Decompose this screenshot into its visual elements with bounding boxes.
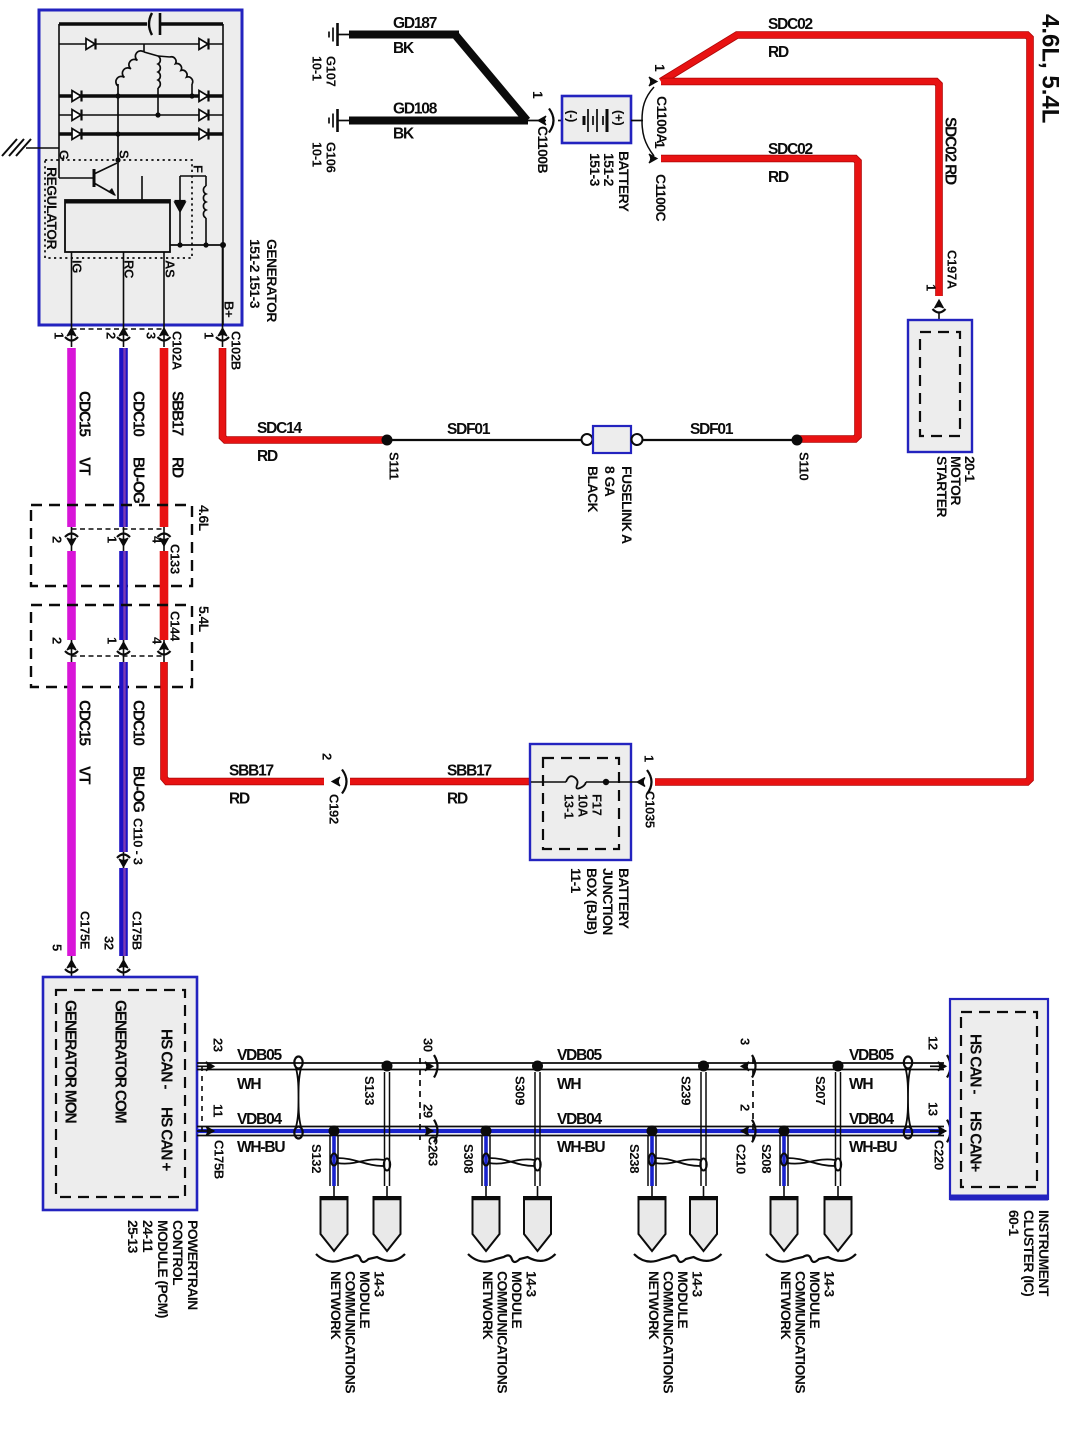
C144 pin 1 bbox=[104, 637, 130, 662]
IC caption bbox=[1006, 1210, 1052, 1297]
wire SBB17 RD upper bbox=[164, 348, 186, 527]
svg-text:11: 11 bbox=[210, 1104, 225, 1117]
svg-text:12: 12 bbox=[925, 1036, 940, 1050]
svg-text:C1035: C1035 bbox=[642, 791, 657, 828]
svg-text:FUSELINK A: FUSELINK A bbox=[619, 466, 635, 544]
svg-text:C133: C133 bbox=[167, 544, 182, 574]
twisted pair symbol near PCM bbox=[294, 1057, 302, 1139]
fuselink A 8 GA BLACK bbox=[582, 426, 643, 544]
svg-text:STARTER: STARTER bbox=[934, 456, 950, 517]
svg-text:VDB05: VDB05 bbox=[849, 1047, 895, 1064]
svg-text:REGULATOR: REGULATOR bbox=[44, 167, 60, 249]
network connector arrow (left) bbox=[771, 1197, 798, 1251]
svg-text:COMMUNICATIONS: COMMUNICATIONS bbox=[495, 1271, 511, 1393]
svg-text:GD187: GD187 bbox=[393, 15, 437, 32]
wire CDC10 below C110-3 bbox=[124, 868, 125, 956]
svg-text:2: 2 bbox=[737, 1104, 752, 1111]
instrument cluster (IC) box bbox=[950, 999, 1048, 1199]
svg-text:MODULE: MODULE bbox=[357, 1271, 373, 1328]
svg-text:C1100A: C1100A bbox=[654, 96, 670, 143]
svg-text:10-1: 10-1 bbox=[309, 56, 324, 81]
inline connector C263 bbox=[420, 1038, 440, 1166]
wire CDC10 BU-OG upper bbox=[124, 348, 147, 527]
pin 5 C175E bbox=[49, 911, 92, 977]
wire CDC10 lower (to C110-3) bbox=[124, 662, 147, 852]
svg-text:29: 29 bbox=[420, 1104, 435, 1118]
svg-text:HS CAN+: HS CAN+ bbox=[967, 1111, 984, 1172]
connector C220 pin 13 bbox=[925, 1102, 950, 1170]
svg-text:CDC10: CDC10 bbox=[130, 700, 147, 745]
svg-text:BATTERY: BATTERY bbox=[616, 868, 632, 930]
generator internal: rectifier diode row 3 bbox=[59, 110, 223, 121]
svg-text:C144: C144 bbox=[167, 611, 182, 642]
svg-text:INSTRUMENT: INSTRUMENT bbox=[1036, 1210, 1052, 1297]
fuse F17 10A inside BJB bbox=[531, 776, 637, 819]
wire SBB17 RD: C144 to C192 bbox=[164, 662, 324, 808]
svg-text:S: S bbox=[116, 150, 131, 159]
svg-text:G107: G107 bbox=[323, 56, 338, 87]
svg-text:1: 1 bbox=[641, 755, 656, 762]
flyback diode (regulator) bbox=[175, 176, 186, 245]
field winding F coil bbox=[180, 176, 206, 245]
svg-text:151-2 151-3: 151-2 151-3 bbox=[247, 239, 263, 309]
svg-text:(-): (-) bbox=[564, 110, 579, 122]
generator internal: left bus bbox=[58, 24, 60, 160]
svg-text:C175E: C175E bbox=[77, 911, 92, 950]
regulator dotted box bbox=[45, 160, 192, 258]
splice S132 bbox=[309, 1126, 340, 1174]
svg-text:VDB04: VDB04 bbox=[237, 1111, 283, 1128]
svg-text:SBB17: SBB17 bbox=[447, 763, 492, 780]
network connector arrow (left) bbox=[473, 1197, 500, 1251]
svg-text:8 GA: 8 GA bbox=[602, 466, 618, 497]
svg-text:C1100B: C1100B bbox=[535, 126, 551, 173]
svg-text:S111: S111 bbox=[386, 452, 401, 480]
battery junction box (BJB) bbox=[530, 744, 632, 935]
svg-text:4.6L, 5.4L: 4.6L, 5.4L bbox=[1036, 14, 1063, 123]
label MODULE COMMUNICATIONS NETWORK 14-3 bbox=[328, 1271, 388, 1393]
svg-text:3: 3 bbox=[143, 332, 158, 339]
IG lead bbox=[69, 252, 84, 347]
svg-text:CDC15: CDC15 bbox=[76, 391, 93, 437]
svg-text:C102A: C102A bbox=[169, 331, 184, 371]
svg-text:SDF01: SDF01 bbox=[447, 421, 491, 438]
svg-text:24-11: 24-11 bbox=[140, 1220, 156, 1253]
battery BATTERY 151-2 151-3 bbox=[562, 96, 632, 213]
svg-text:1: 1 bbox=[652, 64, 668, 72]
pin 1 C197A bbox=[923, 250, 959, 332]
svg-text:B+: B+ bbox=[221, 301, 236, 318]
twisted pair symbol between branches bbox=[483, 1154, 541, 1171]
svg-text:C1100C: C1100C bbox=[653, 174, 669, 221]
REGULATOR label bbox=[44, 167, 60, 249]
wire CDC15 VT lower bbox=[72, 662, 93, 956]
svg-text:MODULE: MODULE bbox=[509, 1271, 525, 1328]
svg-text:1: 1 bbox=[201, 332, 216, 339]
svg-text:VDB05: VDB05 bbox=[557, 1047, 603, 1064]
svg-text:VT: VT bbox=[76, 457, 93, 476]
C133 pin 4 bbox=[149, 527, 170, 551]
svg-text:20-1: 20-1 bbox=[962, 456, 978, 482]
svg-text:CLUSTER (IC): CLUSTER (IC) bbox=[1021, 1210, 1037, 1296]
svg-text:F17: F17 bbox=[589, 794, 604, 816]
C144 label bbox=[167, 611, 182, 642]
splice S207 bbox=[813, 1061, 844, 1106]
svg-text:1: 1 bbox=[104, 536, 119, 543]
branch wire WH-BU from S208 bbox=[780, 1136, 788, 1197]
svg-text:SBB17: SBB17 bbox=[229, 763, 274, 780]
wire CDC15 VT (violet) upper bbox=[72, 348, 93, 527]
svg-text:2: 2 bbox=[49, 637, 64, 644]
svg-text:SBB17: SBB17 bbox=[169, 391, 186, 436]
branch wire WH-BU from S238 bbox=[648, 1136, 656, 1197]
svg-text:CDC10: CDC10 bbox=[130, 391, 147, 436]
C144 pin 4 bbox=[149, 637, 170, 662]
svg-text:BATTERY: BATTERY bbox=[616, 151, 632, 213]
svg-text:RD: RD bbox=[169, 457, 186, 478]
generator internal: B+ top rail with capacitor bbox=[59, 13, 223, 35]
branch wire WH-BU from S132 bbox=[330, 1136, 338, 1197]
svg-text:WH: WH bbox=[557, 1076, 581, 1093]
connector C1035 pin 1 bbox=[637, 755, 657, 828]
svg-text:C192: C192 bbox=[326, 794, 341, 824]
wire SBB17 between C133 and C144 bbox=[160, 551, 169, 640]
PCM caption bbox=[125, 1220, 201, 1318]
svg-text:SDC14: SDC14 bbox=[257, 420, 303, 437]
network connector arrow (left) bbox=[639, 1197, 666, 1251]
svg-text:SDC02: SDC02 bbox=[768, 141, 813, 158]
splice S239 bbox=[678, 1061, 709, 1106]
svg-text:32: 32 bbox=[101, 936, 116, 950]
svg-text:MODULE (PCM): MODULE (PCM) bbox=[155, 1220, 171, 1318]
network connector arrow (left) bbox=[321, 1197, 348, 1251]
pin 2 C102A bbox=[103, 328, 130, 341]
generator box GENERATOR 151-2 151-3 bbox=[39, 10, 242, 325]
transistor (regulator) bbox=[59, 160, 117, 196]
PCM pin 11 HS CAN + bbox=[197, 1104, 226, 1179]
svg-text:BU-OG: BU-OG bbox=[130, 766, 147, 813]
brace squiggle bbox=[468, 1254, 556, 1262]
pin 32 C175B bbox=[101, 911, 144, 977]
svg-text:BU-OG: BU-OG bbox=[130, 457, 147, 504]
starter motor box bbox=[908, 320, 978, 517]
svg-text:RD: RD bbox=[447, 791, 468, 808]
wire SDC14 RD: C102B to S111 bbox=[223, 348, 388, 465]
branch wire WH from S309 bbox=[535, 1072, 540, 1197]
connector C102A label bbox=[169, 331, 184, 371]
connector C102A link line bbox=[72, 328, 165, 330]
generator internal: rectifier diode row 4 bbox=[59, 129, 223, 140]
svg-text:GENERATOR COM: GENERATOR COM bbox=[112, 1000, 129, 1123]
ground G106 bbox=[309, 109, 350, 173]
twisted pair symbol between branches bbox=[331, 1154, 390, 1171]
svg-text:BOX (BJB): BOX (BJB) bbox=[584, 868, 600, 934]
splice S133 bbox=[362, 1061, 393, 1106]
wire SDF01 (S111 to fuselink) bbox=[387, 421, 581, 440]
connector C133 box (4.6L) bbox=[31, 505, 212, 586]
svg-text:S110: S110 bbox=[796, 452, 811, 481]
svg-text:POWERTRAIN: POWERTRAIN bbox=[185, 1220, 201, 1310]
svg-text:WH-BU: WH-BU bbox=[849, 1139, 897, 1156]
svg-text:COMMUNICATIONS: COMMUNICATIONS bbox=[343, 1271, 359, 1393]
svg-text:F: F bbox=[190, 165, 205, 173]
svg-text:10A: 10A bbox=[575, 794, 590, 818]
svg-text:(+): (+) bbox=[611, 110, 626, 125]
wire GD187 BK (thick black) bbox=[349, 15, 527, 121]
ground G107 bbox=[309, 23, 350, 87]
label MODULE COMMUNICATIONS NETWORK 14-3 bbox=[778, 1271, 838, 1393]
connector C192 pin 2 bbox=[319, 753, 346, 824]
svg-text:2: 2 bbox=[103, 332, 118, 339]
svg-text:S207: S207 bbox=[813, 1076, 828, 1105]
pin 1 C1100A bbox=[649, 64, 670, 143]
regulator block bbox=[65, 176, 170, 252]
wire VDB05 WH (top CAN line) bbox=[197, 1047, 944, 1093]
svg-text:14-3: 14-3 bbox=[524, 1271, 540, 1297]
4.6L, 5.4L tag bbox=[1036, 14, 1063, 123]
svg-text:C220: C220 bbox=[931, 1140, 946, 1170]
C144 pin 2 bbox=[49, 637, 78, 662]
wire SDC02 RD: C1100A to right edge, down to BJB C1035 bbox=[655, 16, 1030, 782]
svg-text:1: 1 bbox=[923, 284, 938, 291]
connector C1100B bbox=[528, 91, 562, 173]
svg-text:NETWORK: NETWORK bbox=[646, 1271, 662, 1340]
twisted pair symbol between branches bbox=[781, 1154, 841, 1171]
svg-text:S308: S308 bbox=[461, 1144, 476, 1173]
svg-text:JUNCTION: JUNCTION bbox=[600, 868, 616, 935]
svg-text:S208: S208 bbox=[759, 1144, 774, 1173]
chassis ground (generator case) bbox=[2, 139, 59, 156]
svg-text:11-1: 11-1 bbox=[568, 868, 584, 894]
svg-text:VDB05: VDB05 bbox=[237, 1047, 283, 1064]
svg-text:VT: VT bbox=[76, 766, 93, 785]
connector C102B label bbox=[228, 331, 243, 370]
C133 pin 2 bbox=[49, 527, 78, 551]
brace squiggle bbox=[634, 1254, 722, 1262]
twisted pair symbol between branches bbox=[649, 1154, 707, 1171]
splice S110 bbox=[792, 435, 812, 481]
svg-text:RC: RC bbox=[121, 260, 136, 279]
brace squiggle bbox=[766, 1254, 856, 1262]
svg-text:25-13: 25-13 bbox=[125, 1220, 141, 1254]
splice S309 bbox=[512, 1061, 543, 1106]
svg-text:C110 - 3: C110 - 3 bbox=[130, 818, 145, 865]
svg-text:BK: BK bbox=[393, 40, 415, 57]
svg-text:S133: S133 bbox=[362, 1076, 377, 1105]
B+ pin lead bbox=[221, 245, 236, 347]
svg-text:CONTROL: CONTROL bbox=[170, 1220, 186, 1286]
pin 1 C1100C bbox=[649, 141, 669, 221]
svg-text:WH: WH bbox=[849, 1076, 873, 1093]
svg-text:BK: BK bbox=[393, 126, 415, 143]
wire SDC02 RD: C1100C down to S110 bbox=[661, 141, 858, 439]
svg-text:2: 2 bbox=[319, 753, 334, 760]
wire CDC10 between C133 and C144 bbox=[124, 551, 125, 640]
svg-text:C175B: C175B bbox=[129, 911, 144, 950]
generator internal: S sense line bbox=[115, 84, 120, 200]
splice S111 bbox=[382, 435, 402, 480]
svg-text:151-3: 151-3 bbox=[587, 153, 603, 187]
regulator output node line bbox=[170, 242, 226, 248]
svg-text:4.6L: 4.6L bbox=[196, 505, 212, 532]
svg-text:S239: S239 bbox=[678, 1076, 693, 1105]
branch wire WH from S239 bbox=[701, 1072, 706, 1197]
powertrain control module (PCM) box bbox=[43, 977, 197, 1210]
svg-text:1: 1 bbox=[104, 637, 119, 644]
pin 1 C102A bbox=[51, 328, 78, 341]
svg-text:SDC02 RD: SDC02 RD bbox=[942, 117, 959, 185]
branch wire WH from S207 bbox=[836, 1072, 841, 1197]
C133 pin 1 bbox=[104, 527, 130, 551]
pin 1 C102B bbox=[201, 328, 229, 341]
svg-text:C102B: C102B bbox=[228, 331, 243, 370]
svg-text:S132: S132 bbox=[309, 1144, 324, 1173]
svg-text:13-1: 13-1 bbox=[561, 794, 576, 819]
branch wire WH-BU from S308 bbox=[482, 1136, 490, 1197]
AS lead bbox=[162, 252, 177, 347]
svg-text:C210: C210 bbox=[733, 1144, 748, 1174]
svg-text:GENERATOR MON: GENERATOR MON bbox=[62, 1000, 79, 1123]
svg-text:HS CAN -: HS CAN - bbox=[967, 1034, 984, 1094]
svg-text:COMMUNICATIONS: COMMUNICATIONS bbox=[793, 1271, 809, 1393]
svg-text:14-3: 14-3 bbox=[822, 1271, 838, 1297]
svg-text:60-1: 60-1 bbox=[1006, 1210, 1022, 1236]
branch wire WH from S133 bbox=[385, 1072, 390, 1197]
svg-text:2: 2 bbox=[49, 536, 64, 543]
wire CDC15 VT between C133 and C144 bbox=[67, 551, 76, 640]
wire VDB04 WH-BU (bottom CAN line) bbox=[197, 1111, 944, 1156]
twisted pair symbol near IC bbox=[904, 1057, 912, 1139]
wire GD108 BK (thick black) bbox=[349, 101, 528, 143]
svg-text:4: 4 bbox=[149, 536, 164, 544]
svg-text:HS CAN +: HS CAN + bbox=[158, 1107, 175, 1171]
svg-text:GD108: GD108 bbox=[393, 101, 438, 118]
svg-text:RD: RD bbox=[768, 44, 789, 61]
svg-text:23: 23 bbox=[210, 1038, 225, 1052]
svg-text:RD: RD bbox=[257, 448, 278, 465]
svg-text:IG: IG bbox=[69, 260, 84, 273]
generator internal: right B+ bus bbox=[222, 24, 224, 325]
generator internal: rectifier diode row 2 bbox=[59, 91, 223, 102]
svg-text:14-3: 14-3 bbox=[372, 1271, 388, 1297]
RC lead bbox=[121, 252, 136, 347]
svg-text:WH: WH bbox=[237, 1076, 261, 1093]
svg-text:NETWORK: NETWORK bbox=[778, 1271, 794, 1340]
generator caption bbox=[247, 239, 280, 322]
network connector arrow (right) bbox=[690, 1197, 717, 1251]
svg-text:G: G bbox=[56, 150, 71, 160]
svg-text:AS: AS bbox=[162, 260, 177, 278]
brace squiggle bbox=[316, 1254, 405, 1262]
inline connector C210 bbox=[733, 1038, 755, 1174]
svg-text:1: 1 bbox=[652, 141, 668, 149]
svg-text:C263: C263 bbox=[425, 1136, 440, 1166]
C133 label bbox=[167, 544, 182, 574]
svg-text:4: 4 bbox=[149, 637, 164, 645]
svg-text:GENERATOR: GENERATOR bbox=[264, 239, 280, 322]
svg-text:HS CAN -: HS CAN - bbox=[158, 1029, 175, 1089]
svg-text:C197A: C197A bbox=[944, 250, 959, 290]
connector C110-3 bbox=[117, 818, 145, 868]
svg-text:WH-BU: WH-BU bbox=[237, 1139, 285, 1156]
svg-text:C175B: C175B bbox=[211, 1140, 226, 1179]
svg-text:CDC15: CDC15 bbox=[76, 700, 93, 746]
svg-text:COMMUNICATIONS: COMMUNICATIONS bbox=[661, 1271, 677, 1393]
svg-text:5: 5 bbox=[49, 944, 64, 951]
svg-text:3: 3 bbox=[737, 1038, 752, 1045]
network connector arrow (right) bbox=[374, 1197, 401, 1251]
svg-text:SDF01: SDF01 bbox=[690, 421, 734, 438]
generator internal: stator windings bbox=[116, 44, 195, 118]
svg-text:WH-BU: WH-BU bbox=[557, 1139, 605, 1156]
svg-text:RD: RD bbox=[768, 169, 789, 186]
pin 3 C102A bbox=[143, 328, 170, 341]
splice S238 bbox=[627, 1126, 658, 1174]
svg-text:BLACK: BLACK bbox=[585, 466, 601, 512]
connector C144 box (5.4L) bbox=[31, 605, 212, 687]
svg-text:13: 13 bbox=[925, 1102, 940, 1116]
network connector arrow (right) bbox=[524, 1197, 551, 1251]
svg-text:30: 30 bbox=[420, 1038, 435, 1052]
svg-text:S238: S238 bbox=[627, 1144, 642, 1173]
PCM pin 23 HS CAN - bbox=[197, 1038, 225, 1131]
generator internal: rectifier diode row 1 bbox=[59, 39, 223, 50]
svg-text:5.4L: 5.4L bbox=[196, 606, 212, 633]
node G label bbox=[56, 150, 71, 160]
svg-text:MODULE: MODULE bbox=[675, 1271, 691, 1328]
label MODULE COMMUNICATIONS NETWORK 14-3 bbox=[480, 1271, 540, 1393]
node F label bbox=[190, 165, 205, 173]
label MODULE COMMUNICATIONS NETWORK 14-3 bbox=[646, 1271, 706, 1393]
svg-text:1: 1 bbox=[51, 332, 66, 339]
svg-text:G106: G106 bbox=[323, 142, 338, 173]
connector C220 pin 12 bbox=[925, 1036, 950, 1078]
svg-text:MOTOR: MOTOR bbox=[948, 456, 964, 505]
battery positive bracket to C1100A / C1100C bbox=[631, 87, 654, 156]
wire SDC02 RD: C1100A to starter motor C197A bbox=[661, 82, 959, 297]
svg-text:VDB04: VDB04 bbox=[849, 1111, 895, 1128]
splice S308 bbox=[461, 1126, 492, 1174]
wire SDF01 (fuselink to S110) bbox=[643, 421, 800, 440]
svg-text:NETWORK: NETWORK bbox=[328, 1271, 344, 1340]
svg-text:NETWORK: NETWORK bbox=[480, 1271, 496, 1340]
svg-text:MODULE: MODULE bbox=[807, 1271, 823, 1328]
svg-text:14-3: 14-3 bbox=[690, 1271, 706, 1297]
svg-text:SDC02: SDC02 bbox=[768, 16, 813, 33]
svg-text:S309: S309 bbox=[512, 1076, 527, 1105]
svg-text:RD: RD bbox=[229, 791, 250, 808]
node S label bbox=[116, 150, 131, 159]
svg-text:10-1: 10-1 bbox=[309, 142, 324, 167]
wire SBB17 RD: C192 to BJB bbox=[350, 763, 531, 808]
svg-text:VDB04: VDB04 bbox=[557, 1111, 603, 1128]
svg-text:1: 1 bbox=[530, 91, 546, 99]
splice S208 bbox=[759, 1126, 790, 1174]
network connector arrow (right) bbox=[825, 1197, 852, 1251]
